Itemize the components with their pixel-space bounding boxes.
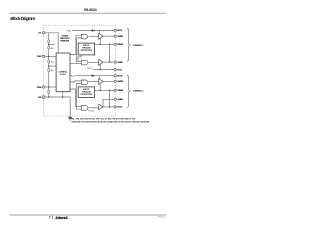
wire T2b jog to LGATE2: [103, 99, 114, 107]
svg-text:Block Diagram: Block Diagram: [10, 16, 35, 21]
wire BOOT2 rail: [75, 75, 114, 77]
wire AND1a to driver T1a: [88, 35, 98, 37]
wire VCC to internal rail: [45, 33, 58, 53]
diode D2 bootstrap: [92, 75, 94, 77]
svg-text:PVCC2: PVCC2: [88, 111, 94, 113]
svg-text:NB - THE 10kΩ RESISTORS, THE P: NB - THE 10kΩ RESISTORS, THE PULL-UP AND…: [72, 117, 137, 120]
svg-text:BOOT2: BOOT2: [117, 76, 123, 78]
svg-text:FN9111.4: FN9111.4: [158, 217, 166, 219]
wire control logic to GND: [62, 92, 64, 97]
node divider tap: [48, 65, 50, 67]
wire PHASE2 line: [95, 89, 115, 91]
node PVCC1-T1b: [99, 69, 101, 71]
resistor R1 10k: [48, 40, 50, 43]
brace channel 2: [127, 75, 130, 107]
pin LGATE1: [114, 61, 116, 63]
wire PWM2 input: [45, 86, 56, 88]
wire bus stub ch2 upper: [70, 81, 81, 82]
svg-text:PHASE1: PHASE1: [117, 43, 124, 46]
shoot-through protection block 2: [78, 87, 94, 98]
wire bus stub ch1 lower: [70, 38, 77, 63]
svg-text:GND: GND: [38, 97, 42, 99]
pin PWM2: [42, 86, 44, 88]
wire T1a return to phase: [99, 38, 101, 44]
wire AND1b to driver T1b: [88, 61, 98, 63]
wire bus stub ch1 upper: [70, 35, 76, 54]
svg-text:CHANNEL 1: CHANNEL 1: [133, 44, 145, 47]
wires group: [45, 31, 114, 118]
svg-text:LGATE1: LGATE1: [117, 61, 124, 64]
node PHASE1 link: [109, 44, 111, 46]
node divider-GND: [48, 96, 50, 98]
AND gate G1a: [81, 34, 87, 39]
svg-text:PROTECTION: PROTECTION: [81, 94, 93, 96]
svg-text:intersil.: intersil.: [56, 216, 69, 220]
svg-text:BOOT1: BOOT1: [117, 30, 123, 32]
svg-text:PVCC2: PVCC2: [70, 76, 75, 78]
diode D1 bootstrap: [92, 30, 94, 32]
wire PVCC2 line: [103, 106, 114, 108]
pin VCC: [42, 32, 44, 34]
control logic block U1: [56, 53, 70, 92]
resistor R2 10k: [48, 46, 50, 49]
svg-text:PVCC1: PVCC1: [67, 31, 72, 33]
right pin labels: [117, 30, 124, 109]
junction dots: [48, 44, 110, 108]
pin LGATE2: [114, 98, 116, 100]
wire PWM1 input: [45, 55, 56, 57]
svg-text:PWM1: PWM1: [37, 56, 43, 58]
svg-text:PWM2: PWM2: [37, 87, 43, 89]
shoot-through protection block 1: [78, 43, 94, 55]
wire BOOT1 rail: [72, 30, 114, 32]
AND gate G2b: [81, 106, 88, 111]
svg-text:ISL6614: ISL6614: [84, 8, 97, 12]
wire bus stub ch2 lower: [70, 89, 81, 107]
svg-text:VCC: VCC: [38, 33, 42, 35]
wire T1b to LGATE1: [103, 61, 114, 63]
driver triangle T1a upper gate driver: [99, 33, 103, 39]
pin UGATE1: [114, 35, 116, 37]
footer rule: [9, 214, 166, 217]
POR and Pre-POR OVP protection text: [60, 34, 71, 42]
svg-text:PROTECTION: PROTECTION: [81, 50, 93, 52]
pin PWM1: [42, 55, 44, 57]
pin PVCC1: [114, 68, 116, 70]
AND gate G1b: [81, 60, 88, 65]
node divider-PWM1: [48, 56, 50, 58]
ground symbol: [68, 117, 72, 120]
wire T1b return to PVCC1: [99, 64, 101, 69]
wire T2a return to phase2: [99, 84, 101, 91]
pin UGATE2: [114, 80, 116, 82]
wire AND2b lower input stub: [77, 89, 82, 109]
node PHASE2 link: [109, 90, 111, 92]
svg-text:UGATE1: UGATE1: [117, 35, 124, 38]
wire AND2a input stubs: [77, 84, 82, 89]
wire AND1b lower input stub: [77, 62, 82, 64]
pin PHASE2: [114, 89, 116, 91]
header rule: [9, 12, 166, 15]
brace channel 1: [127, 28, 130, 61]
pin PVCC2: [114, 106, 116, 108]
svg-text:PVCC1: PVCC1: [117, 69, 123, 71]
wire AND2b to driver T2b: [88, 107, 98, 109]
svg-text:2: 2: [49, 216, 51, 220]
node divider-PWM2: [48, 86, 50, 88]
pin BOOT2: [114, 75, 116, 77]
wire upper divider tap: [49, 43, 55, 45]
driver triangle T2a upper gate driver: [99, 79, 103, 85]
footer separator bar: [51, 216, 54, 220]
pin BOOT1: [114, 29, 116, 31]
svg-text:PROTECTIONS: PROTECTIONS: [61, 40, 70, 42]
svg-text:PVCC1: PVCC1: [87, 68, 92, 70]
svg-text:CHANNEL 2: CHANNEL 2: [133, 89, 145, 92]
node PVCC2 link: [109, 106, 111, 108]
wire BOOT1 drop to upper driver: [99, 31, 101, 35]
wire resistor divider vertical: [48, 33, 50, 97]
svg-text:LOGIC: LOGIC: [60, 74, 67, 76]
node PHASE1-T1a: [99, 44, 101, 46]
IC boundary dashed box: [44, 25, 116, 116]
node GND-control: [62, 96, 64, 98]
pin GND: [42, 96, 44, 98]
svg-text:DRIVE AND THE GND PIN MUST BOT: DRIVE AND THE GND PIN MUST BOTH BE CONNE…: [72, 120, 151, 123]
wire PVCC1 line: [93, 69, 114, 71]
pin PHASE1: [114, 43, 116, 45]
svg-text:PHASE2: PHASE2: [117, 89, 124, 92]
wire BOOT2 drop to upper driver: [99, 76, 101, 80]
driver triangle T1b lower gate driver: [99, 59, 103, 65]
node divider tap upper: [48, 44, 50, 46]
AND gate G2a: [81, 80, 88, 85]
svg-text:LGATE2: LGATE2: [117, 98, 124, 101]
resistor R4 10k: [48, 69, 50, 72]
resistor R3 10k: [48, 60, 50, 63]
svg-text:PVCC2: PVCC2: [117, 107, 123, 109]
wire T2a to UGATE2: [103, 80, 114, 82]
node PHASE2-T2a: [99, 90, 101, 92]
wire shoot1 to AND1b: [78, 55, 82, 62]
wire AND1a input stubs: [76, 35, 82, 38]
resistor R5 10k: [48, 91, 50, 94]
wire PHASE1 line: [95, 43, 115, 45]
wire GND line: [45, 97, 70, 117]
wire AND2a to driver T2a: [88, 81, 98, 83]
wire T1a to UGATE1: [103, 35, 114, 37]
driver triangle T2b lower gate driver: [99, 104, 103, 110]
wire tap to control logic: [49, 65, 56, 67]
wire phase-pvcc link ch2: [109, 90, 111, 107]
svg-text:UGATE2: UGATE2: [117, 80, 124, 83]
right pins column: [114, 29, 116, 108]
wire phase-lgate link ch1: [109, 44, 111, 62]
node LGATE1 link: [109, 61, 111, 63]
